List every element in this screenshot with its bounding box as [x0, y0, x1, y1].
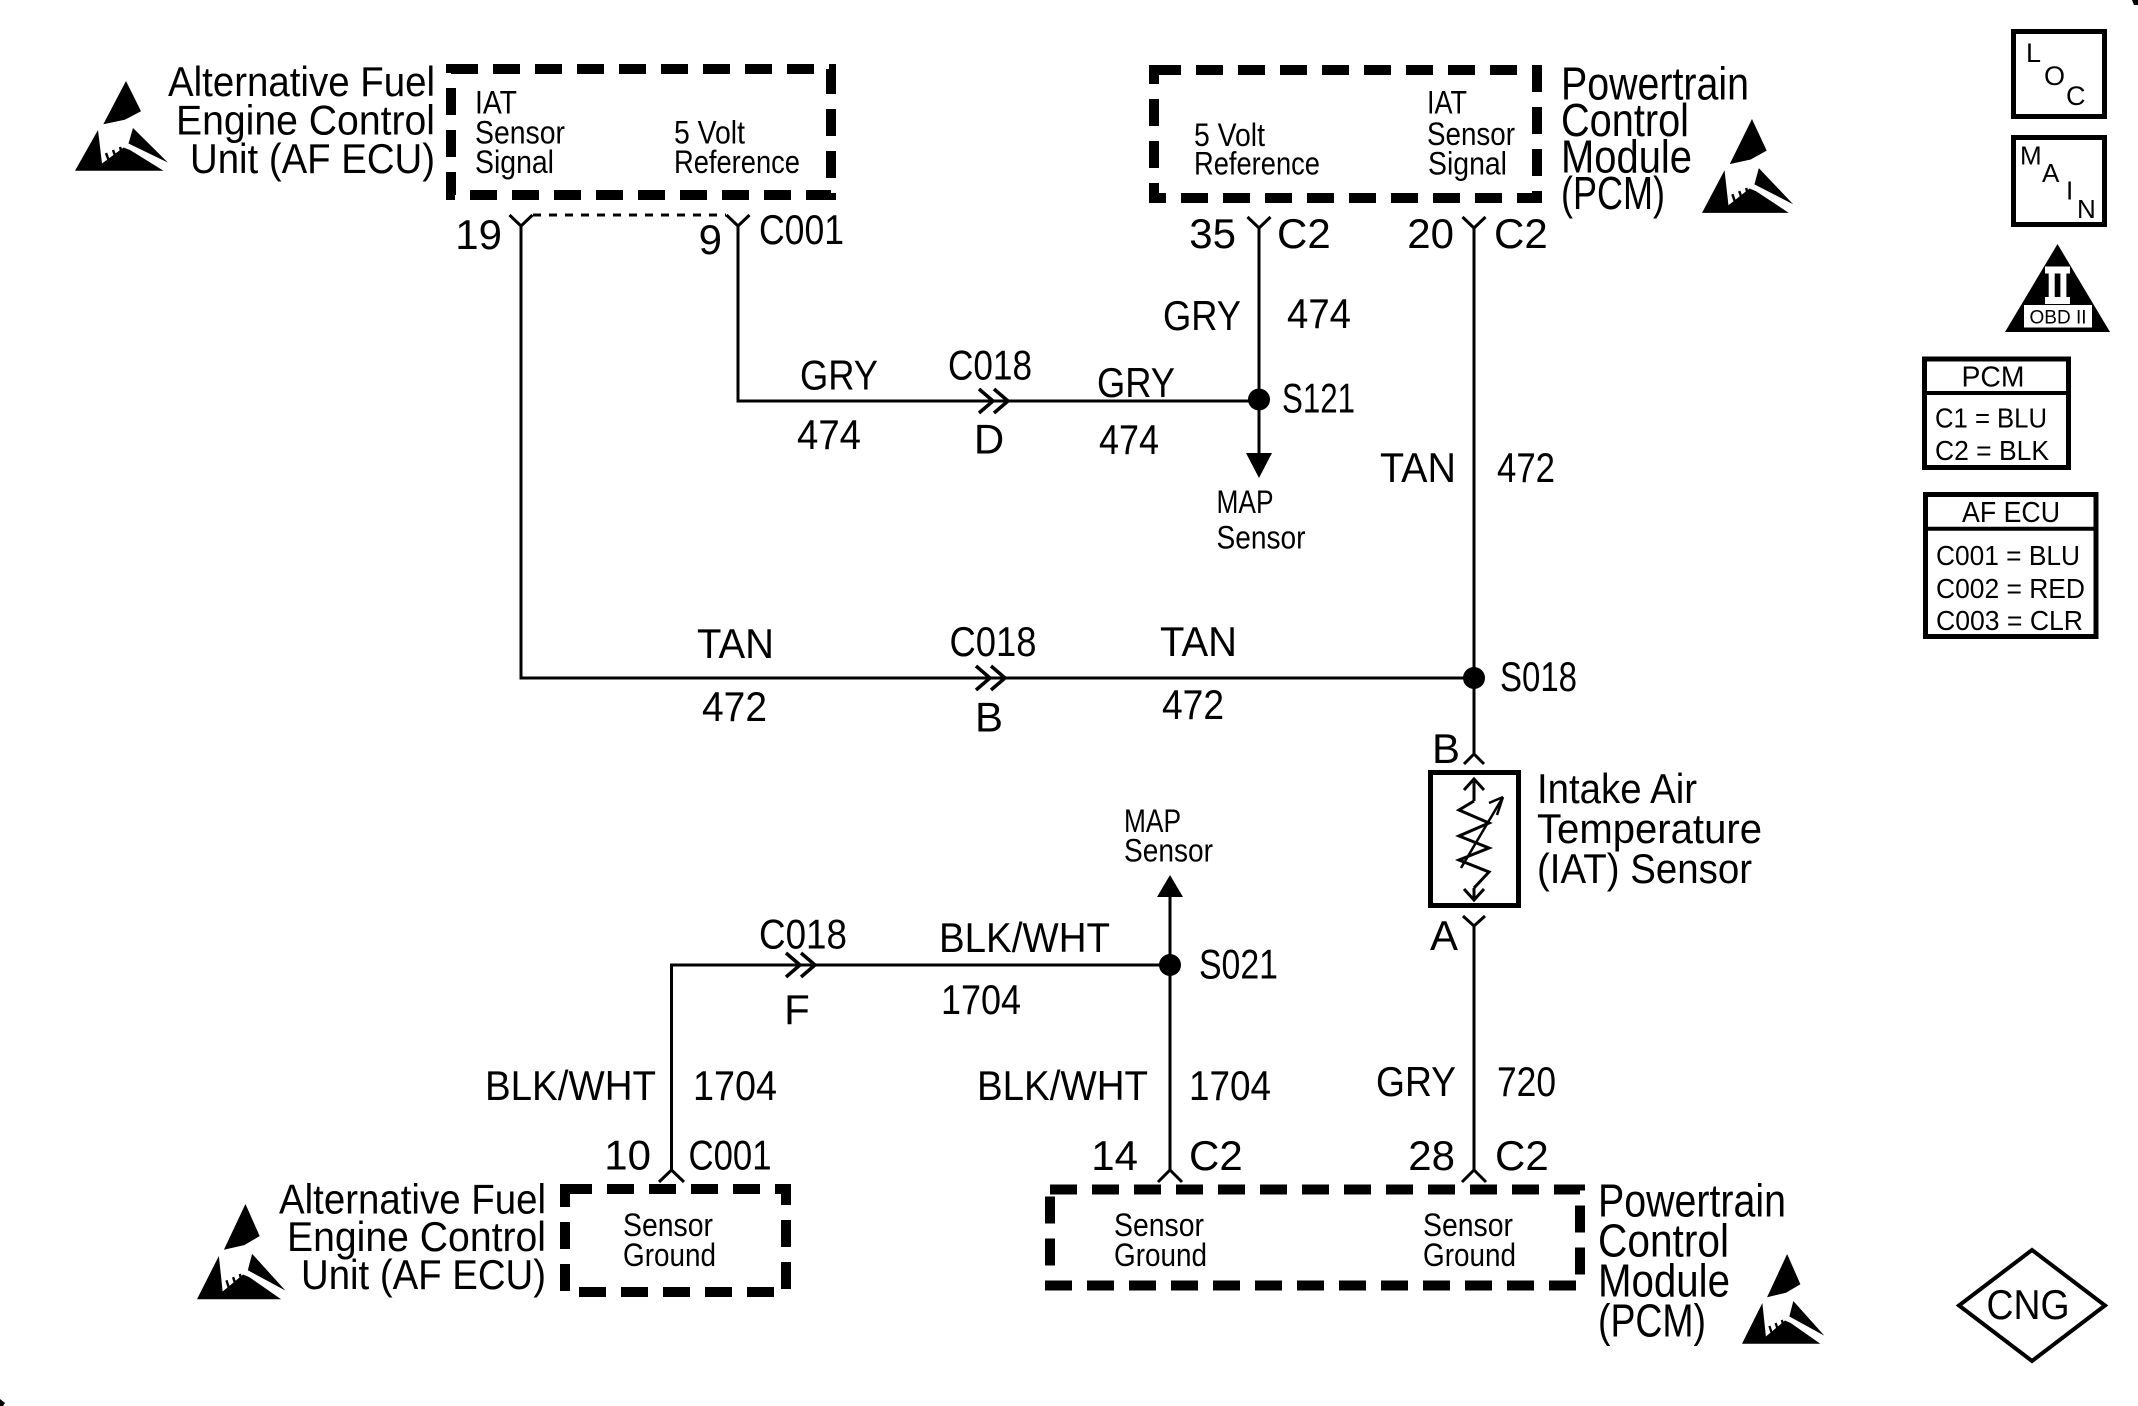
splice S121 [1248, 389, 1270, 411]
AF ECU (bottom) dashed connector box [565, 1189, 786, 1292]
svg-text:472: 472 [1162, 681, 1224, 728]
pin 9 female terminal [727, 215, 750, 226]
wire: BLK/WHT 1704 from S021 down to PCM pin 14 [1169, 965, 1172, 1170]
AF ECU pin function: Sensor Ground [623, 1207, 716, 1273]
svg-text:C003 = CLR: C003 = CLR [1936, 605, 2083, 636]
svg-text:C2 = BLK: C2 = BLK [1935, 435, 2050, 466]
svg-text:B: B [975, 694, 1003, 741]
pin 35 female terminal [1248, 217, 1271, 228]
svg-text:BLK/WHT: BLK/WHT [485, 1062, 656, 1109]
svg-text:O: O [2044, 61, 2065, 91]
svg-text:Ground: Ground [1114, 1237, 1207, 1273]
svg-text:A: A [1430, 912, 1458, 959]
PCM pin function: Sensor Ground (pin 14) [1114, 1207, 1207, 1273]
svg-text:C2: C2 [1189, 1132, 1243, 1179]
PCM pin function: IAT Sensor Signal [1427, 85, 1515, 182]
PCM (top) component title [1561, 58, 1749, 220]
pin 10 female terminal [659, 1170, 684, 1182]
in-line connector C018 cavity B chevrons [976, 666, 1005, 690]
in-line connector C018 cavity D chevrons [979, 389, 1008, 413]
svg-text:Signal: Signal [1428, 146, 1507, 182]
svg-text:GRY: GRY [1376, 1058, 1456, 1105]
svg-text:1704: 1704 [941, 976, 1021, 1023]
arrow to MAP Sensor (top) [1246, 453, 1272, 478]
svg-text:Reference: Reference [674, 144, 800, 180]
in-line connector C018 cavity F chevrons [786, 953, 815, 977]
PCM (bottom) dashed connector box [1050, 1190, 1580, 1286]
AF ECU connector legend box [1923, 495, 2096, 637]
svg-text:OBD II: OBD II [2030, 307, 2087, 329]
svg-text:474: 474 [797, 411, 861, 458]
AF ECU (bottom) component title [279, 1176, 546, 1299]
svg-text:(PCM): (PCM) [1561, 167, 1665, 219]
MAP Sensor label (bottom) [1124, 803, 1213, 869]
IAT sensor pin A female terminal [1463, 916, 1485, 926]
wire: GRY 720 from IAT pin A to PCM pin 28 [1473, 926, 1476, 1170]
svg-text:474: 474 [1099, 416, 1159, 463]
svg-text:Ground: Ground [623, 1237, 716, 1273]
svg-text:GRY: GRY [800, 352, 878, 399]
svg-text:C2: C2 [1495, 1132, 1549, 1179]
pin 20 female terminal [1463, 217, 1486, 228]
svg-text:C018: C018 [948, 342, 1032, 389]
svg-text:TAN: TAN [1380, 444, 1456, 491]
svg-text:35: 35 [1189, 210, 1236, 257]
svg-text:TAN: TAN [1160, 618, 1237, 665]
splice S021 [1159, 954, 1181, 976]
svg-text:F: F [784, 986, 810, 1033]
svg-text:14: 14 [1091, 1132, 1138, 1179]
AF ECU (top) component title [168, 58, 435, 182]
IAT thermistor symbol [1459, 779, 1503, 900]
svg-text:AF ECU: AF ECU [1962, 497, 2060, 529]
svg-text:472: 472 [702, 683, 767, 730]
svg-text:M: M [2020, 141, 2042, 171]
pin 19 female terminal [510, 215, 533, 226]
svg-text:GRY: GRY [1163, 292, 1241, 339]
MAIN reference box [2014, 138, 2105, 225]
svg-text:19: 19 [455, 211, 502, 258]
AF ECU pin function: IAT Sensor Signal [475, 85, 565, 181]
ESD sensitive device icon (bottom right) [1742, 1254, 1824, 1344]
PCM pin function: Sensor Ground (pin 28) [1423, 1207, 1516, 1273]
ESD sensitive device icon (top right) [1702, 119, 1793, 213]
svg-text:Unit (AF ECU): Unit (AF ECU) [190, 135, 435, 182]
svg-text:I: I [2066, 176, 2073, 206]
svg-text:C2: C2 [1494, 210, 1548, 257]
wire: 5 Volt Reference GRY 474 from AF ECU pin 9 to S121 [738, 226, 1259, 401]
svg-text:9: 9 [699, 216, 722, 263]
AF ECU (top) dashed connector box [451, 69, 831, 195]
CNG fuel type diamond [1959, 1250, 2105, 1361]
svg-text:(IAT) Sensor: (IAT) Sensor [1537, 845, 1752, 892]
LOC reference box [2014, 32, 2105, 117]
AF ECU pin function: 5 Volt Reference [674, 115, 800, 181]
svg-text:28: 28 [1408, 1132, 1455, 1179]
splice S018 [1463, 667, 1485, 689]
svg-text:S021: S021 [1199, 941, 1278, 988]
Intake Air Temperature (IAT) Sensor box [1431, 773, 1519, 906]
svg-text:(PCM): (PCM) [1598, 1295, 1706, 1347]
svg-text:BLK/WHT: BLK/WHT [939, 914, 1110, 961]
svg-text:PCM: PCM [1962, 362, 2025, 394]
svg-text:472: 472 [1497, 444, 1555, 491]
IAT sensor title [1537, 765, 1762, 892]
svg-text:A: A [2042, 158, 2060, 188]
svg-text:C001: C001 [759, 206, 844, 253]
svg-text:Unit (AF ECU): Unit (AF ECU) [301, 1251, 546, 1298]
scan artifact bottom left corner [0, 1399, 5, 1406]
svg-text:C001: C001 [689, 1132, 772, 1179]
svg-text:Sensor: Sensor [1124, 833, 1213, 869]
svg-text:CNG: CNG [1987, 1281, 2070, 1328]
svg-text:S018: S018 [1500, 653, 1577, 700]
svg-text:1704: 1704 [1189, 1062, 1271, 1109]
pin 28 female terminal [1462, 1170, 1486, 1182]
wire: BLK/WHT 1704 from AF ECU pin 10 through C018 F to S021 [672, 965, 1171, 1170]
PCM (bottom) component title [1598, 1175, 1786, 1347]
svg-text:Reference: Reference [1194, 146, 1320, 182]
svg-text:GRY: GRY [1097, 359, 1175, 406]
svg-text:TAN: TAN [697, 620, 774, 667]
PCM pin function: 5 Volt Reference [1194, 117, 1320, 182]
PCM connector legend box [1922, 359, 2069, 468]
svg-text:C018: C018 [759, 911, 847, 958]
scan artifact top right corner [2132, 0, 2138, 5]
svg-text:C002 = RED: C002 = RED [1936, 573, 2085, 604]
svg-text:720: 720 [1497, 1058, 1556, 1105]
svg-text:BLK/WHT: BLK/WHT [977, 1062, 1148, 1109]
svg-text:C001 = BLU: C001 = BLU [1936, 540, 2080, 571]
wire: stub from S021 up to MAP sensor arrow (bottom) [1169, 897, 1172, 965]
ESD sensitive device icon (top left) [75, 81, 168, 171]
svg-text:1704: 1704 [693, 1062, 777, 1109]
svg-text:Ground: Ground [1423, 1237, 1516, 1273]
svg-text:Signal: Signal [475, 144, 554, 180]
svg-text:S121: S121 [1282, 375, 1355, 422]
PCM (top) dashed connector box [1154, 70, 1537, 198]
svg-text:10: 10 [604, 1132, 651, 1179]
svg-text:Sensor: Sensor [1217, 520, 1306, 556]
wire: GRY 474 from PCM pin 35 down through S121 to MAP sensor arrow [1258, 228, 1261, 455]
svg-text:C2: C2 [1277, 210, 1331, 257]
arrow to MAP Sensor (bottom) [1157, 875, 1183, 897]
svg-text:C: C [2066, 81, 2086, 111]
wire: TAN 472 from PCM pin 20 down through S018 to IAT sensor pin B [1473, 228, 1476, 753]
IAT sensor pin B female terminal [1464, 754, 1484, 764]
pin 14 female terminal [1158, 1170, 1182, 1182]
svg-text:N: N [2077, 194, 2096, 224]
svg-text:MAP: MAP [1217, 484, 1274, 520]
svg-text:20: 20 [1407, 210, 1454, 257]
svg-text:C018: C018 [950, 618, 1037, 665]
ESD sensitive device icon (bottom left) [197, 1204, 285, 1299]
svg-text:D: D [974, 416, 1004, 463]
svg-text:C1 = BLU: C1 = BLU [1935, 403, 2047, 434]
MAP Sensor label (top) [1217, 484, 1306, 556]
svg-text:L: L [2026, 38, 2041, 68]
svg-text:B: B [1432, 725, 1460, 772]
wire: IAT Sensor Signal TAN 472 from AF ECU pin 19 to S018 [521, 226, 1474, 678]
connector C001 dashed pin line [533, 214, 726, 217]
OBD II triangle symbol [2005, 244, 2110, 332]
svg-text:474: 474 [1287, 290, 1351, 337]
